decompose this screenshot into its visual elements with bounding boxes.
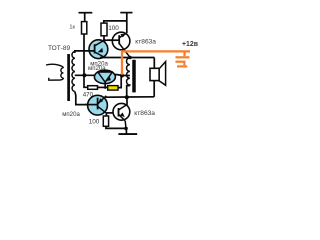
- input transformer secondary winding: [72, 52, 75, 92]
- wire Q2 base: [107, 39, 119, 41]
- wire Q1 base from transformer: [75, 51, 95, 53]
- svg-text:1к: 1к: [69, 24, 75, 30]
- terminal T1 top: [79, 13, 93, 22]
- wire tap junction down to R3: [84, 75, 88, 87]
- node tap dot: [82, 73, 86, 77]
- terminal T2 top: [120, 13, 132, 21]
- output transformer core: [132, 60, 136, 93]
- wire R5 bottom to emitter node: [106, 126, 126, 128]
- capacitor C1 orange: [176, 51, 190, 66]
- svg-text:+12в: +12в: [182, 41, 198, 48]
- wire Q2 collector up: [126, 21, 128, 33]
- wire speaker top down: [153, 58, 155, 69]
- ground bar: [118, 133, 137, 135]
- resistor R5 100: [103, 116, 108, 126]
- wire Q3 bottom stub: [104, 82, 106, 87]
- wire secondary bottom to Q4 base corner: [75, 92, 87, 105]
- node R2/Q2 junction: [103, 39, 106, 42]
- node bottom rail dot: [125, 95, 129, 99]
- wire Q3 right to +12 node: [115, 74, 122, 75]
- wire Q5 emitter to node: [124, 121, 127, 128]
- +12v rail orange: [122, 51, 190, 74]
- wire tap to winding: [122, 75, 130, 77]
- wire R4 to riser up to +12 node: [118, 76, 121, 88]
- resistor R4 yellow: [108, 86, 118, 91]
- speaker: [150, 62, 166, 86]
- node +12 tap dot: [120, 74, 124, 78]
- svg-text:кт863а: кт863а: [135, 38, 156, 45]
- wire top rail to R2: [104, 21, 127, 24]
- wire winding bottom step: [127, 86, 130, 98]
- transistor Q3 мп20а: [94, 70, 115, 83]
- wire R1 down to tap junction: [83, 34, 85, 75]
- wire Q1 emitter rail to speaker top: [100, 57, 154, 59]
- transistor Q2 кт863а: [112, 32, 130, 57]
- wire down to Q5 collector: [126, 97, 128, 105]
- svg-text:мп20а: мп20а: [62, 111, 80, 118]
- wire speaker bottom lead: [153, 81, 155, 97]
- wire R2 bottom to Q2 base: [104, 36, 113, 40]
- transistor Q4 мп20а: [88, 95, 108, 115]
- wire R5 stub top: [105, 113, 107, 116]
- output transformer primary winding: [126, 58, 129, 86]
- transistor Q5 кт863а: [113, 103, 130, 121]
- wire secondary centre tap: [75, 74, 95, 76]
- wire Q4 base: [85, 104, 98, 106]
- transistor Q1 мп20а: [89, 40, 108, 59]
- svg-text:кт863а: кт863а: [134, 110, 155, 117]
- svg-text:100: 100: [108, 25, 119, 32]
- resistor R2 100: [101, 23, 107, 36]
- node winding top dot: [128, 56, 131, 59]
- node Q3 stub: [104, 86, 107, 89]
- wire Q4 collector to Q5 base: [106, 112, 118, 114]
- resistor R1 1k: [82, 22, 87, 34]
- svg-text:100: 100: [89, 118, 100, 125]
- svg-text:ТОТ-89: ТОТ-89: [48, 45, 70, 52]
- resistor R3 470: [88, 86, 98, 90]
- node emitter dot: [124, 127, 128, 131]
- wire R3 to R4: [98, 86, 108, 88]
- wire down to ground bar: [125, 128, 127, 134]
- input transformer core: [67, 54, 70, 101]
- wire bottom rail: [106, 96, 155, 98]
- input transformer primary winding: [46, 64, 63, 80]
